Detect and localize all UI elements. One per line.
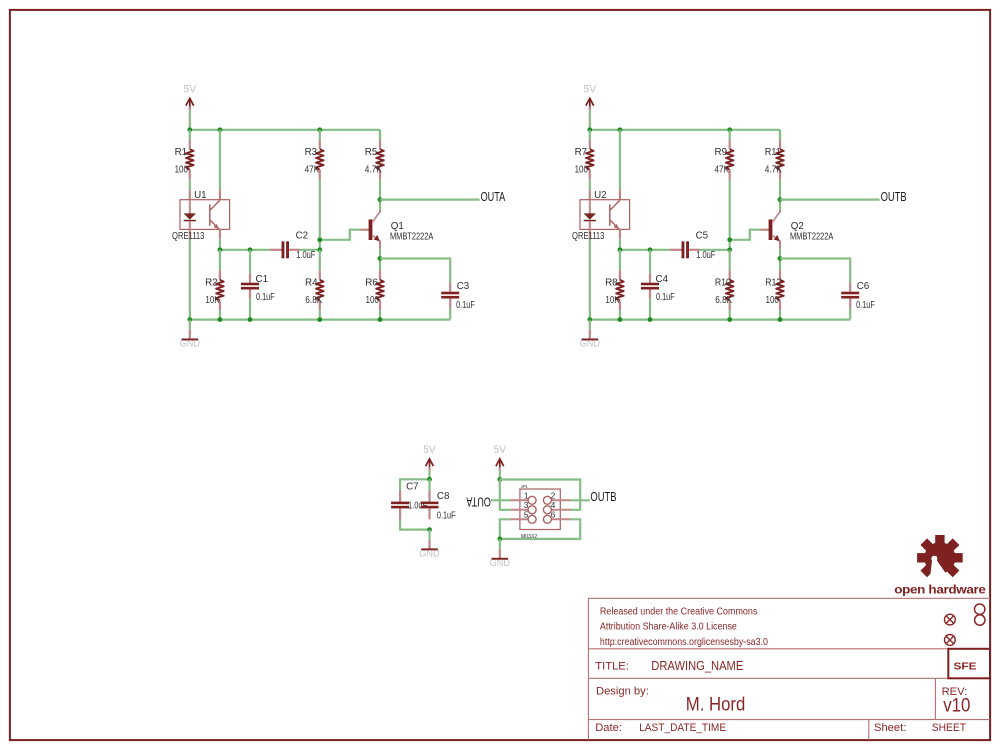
svg-text:R6: R6 (365, 277, 378, 288)
svg-text:6.8K: 6.8K (305, 295, 322, 306)
svg-text:100: 100 (366, 295, 380, 306)
junction header 5V (497, 477, 502, 482)
CC icon stacked circles (975, 604, 986, 625)
junction top rail at sensor column (618, 127, 623, 132)
junction emitter row at sensor column (218, 247, 223, 252)
svg-text:47K: 47K (715, 165, 730, 176)
transistor Q1 MMBT2222A (360, 210, 380, 249)
junction emitter row at C1 (648, 247, 653, 252)
svg-text:R10: R10 (715, 277, 731, 288)
junction bottom rail at R6 (778, 317, 783, 322)
svg-text:5V: 5V (423, 444, 436, 456)
wire into R9 (729, 130, 731, 140)
svg-text:v10: v10 (943, 695, 970, 717)
wire C7 top (400, 479, 429, 490)
junction top rail at sensor column (218, 127, 223, 132)
wire sensor emitter to C2 row (619, 239, 621, 250)
opto reflective sensor U2 QRE1113 (580, 190, 630, 239)
wire sensor emitter to C2 row (219, 239, 221, 250)
svg-text:C5: C5 (696, 230, 709, 241)
svg-text:0.1uF: 0.1uF (437, 511, 456, 522)
svg-text:Q2: Q2 (791, 221, 804, 232)
svg-text:C8: C8 (437, 491, 450, 502)
wire R2 to bottom rail (219, 310, 221, 320)
wire into R1 (189, 130, 191, 140)
svg-text:0.1uF: 0.1uF (856, 300, 875, 311)
wire R4 to bottom rail (319, 310, 321, 320)
wire C8 top stub (428, 479, 430, 490)
ground symbol (bypass caps) (419, 530, 440, 560)
svg-text:4: 4 (551, 501, 556, 510)
wire R1 to sensor LED anode (589, 179, 591, 190)
wire into R5 (379, 130, 381, 140)
svg-text:SFE: SFE (954, 661, 977, 672)
wire emitter row to C2 (220, 249, 270, 251)
svg-text:100: 100 (766, 295, 780, 306)
wire C7 bottom (400, 519, 429, 529)
svg-text:OUTA: OUTA (466, 495, 491, 510)
junction collector / output (378, 197, 383, 202)
wire into R4 (319, 250, 321, 271)
svg-text:Released under the Creative Co: Released under the Creative Commons (600, 607, 758, 618)
svg-text:Sheet:: Sheet: (874, 722, 906, 734)
wire top rail to sensor collector (619, 130, 621, 190)
wire 5V to pin 3 (500, 480, 511, 510)
svg-text:100: 100 (175, 165, 189, 176)
svg-text:2: 2 (551, 491, 556, 500)
junction bottom rail at C1 (648, 317, 653, 322)
svg-text:R2: R2 (205, 277, 218, 288)
wire R1 to sensor LED anode (189, 179, 191, 190)
wire into R2 (219, 250, 221, 271)
svg-text:5V: 5V (584, 84, 597, 96)
svg-text:4.7K: 4.7K (365, 165, 382, 176)
svg-text:Design by:: Design by: (596, 685, 649, 697)
junction bottom rail at R2 (218, 317, 223, 322)
junction bottom rail at R4 (317, 317, 322, 322)
svg-text:R9: R9 (715, 147, 728, 158)
junction base tap (727, 237, 732, 242)
svg-text:0.1uF: 0.1uF (656, 292, 675, 303)
junction C2 at R4 column (317, 247, 322, 252)
junction collector / output (778, 197, 783, 202)
wire R3 bottom to base tap (319, 179, 321, 249)
wire C2 to R3/R4 column (300, 249, 320, 251)
junction header GND (497, 537, 502, 542)
junction bottom rail at GND stub (187, 317, 192, 322)
wire OUTA to pin 1 (491, 499, 511, 501)
svg-text:U2: U2 (594, 190, 607, 201)
wire 5V top rail (590, 129, 780, 131)
svg-text:5V: 5V (494, 444, 507, 456)
junction bottom rail at R6 (378, 317, 383, 322)
svg-text:R1: R1 (175, 147, 188, 158)
transistor Q2 MMBT2222A (760, 210, 780, 249)
junction emitter row (778, 256, 783, 261)
svg-text:M. Hord: M. Hord (686, 694, 746, 716)
svg-text:C1: C1 (256, 274, 269, 285)
wire C2 to R3/R4 column (700, 249, 730, 251)
wire into R8 (619, 250, 621, 271)
svg-text:0.1uF: 0.1uF (256, 292, 275, 303)
svg-text:LAST_DATE_TIME: LAST_DATE_TIME (639, 722, 726, 734)
svg-text:MMBT2222A: MMBT2222A (790, 232, 834, 243)
wire top rail to R5 (379, 130, 381, 140)
svg-text:3: 3 (524, 501, 529, 510)
resistor R8 (616, 270, 624, 310)
wire emitter row to C3 (380, 259, 450, 283)
supply 5V symbol (header) (494, 444, 507, 480)
svg-text:OUTB: OUTB (881, 189, 907, 204)
ground symbol (180, 320, 201, 350)
Sheet cell (874, 722, 966, 734)
wire into R10 (729, 250, 731, 271)
junction C8 bottom (427, 527, 432, 532)
opto reflective sensor U1 QRE1113 (180, 190, 230, 239)
svg-text:5: 5 (524, 510, 529, 519)
TITLE row (595, 658, 743, 673)
junction top rail at R1 column (587, 127, 592, 132)
svg-text:6.8K: 6.8K (715, 295, 732, 306)
svg-text:M03X2: M03X2 (521, 534, 537, 540)
wire GND bottom rail (190, 319, 450, 321)
wire R5 to collector (379, 179, 381, 210)
svg-text:R12: R12 (765, 277, 781, 288)
svg-text:47K: 47K (305, 165, 320, 176)
resistor R5 (376, 140, 384, 180)
junction emitter row at sensor column (618, 247, 623, 252)
CC icon circle-x 2 (945, 635, 956, 646)
capacitor C2 (270, 241, 299, 258)
ground symbol (580, 320, 601, 350)
wire R12 to bottom rail (779, 310, 781, 320)
wire R8 to bottom rail (619, 310, 621, 320)
svg-text:C4: C4 (656, 274, 669, 285)
supply 5V symbol (OUTB circuit) (584, 84, 597, 130)
svg-text:DRAWING_NAME: DRAWING_NAME (651, 658, 743, 673)
resistor R10 (726, 270, 734, 310)
wire sensor LED cathode to bottom rail (589, 239, 591, 320)
svg-text:1.0uF: 1.0uF (696, 250, 715, 261)
wire 5V to pin 4 (500, 480, 580, 510)
svg-text:MMBT2222A: MMBT2222A (390, 232, 434, 243)
wire emitter row to C3 (780, 259, 850, 283)
junction top rail at R1 column (187, 127, 192, 132)
wire pin 6 to GND (500, 519, 580, 539)
capacitor C5 (670, 241, 699, 258)
capacitor C8 (421, 490, 439, 519)
wire into R3 (319, 130, 321, 140)
wire emitter to R6 (779, 249, 781, 270)
wire top rail to sensor collector (219, 130, 221, 190)
SFE box (948, 649, 990, 679)
Date row (595, 722, 726, 734)
svg-text:C3: C3 (457, 281, 470, 292)
svg-text:C6: C6 (857, 281, 870, 292)
svg-text:http:creativecommons.orglicens: http:creativecommons.orglicensesby-sa3.0 (600, 637, 769, 648)
svg-text:R4: R4 (305, 277, 318, 288)
resistor R11 (776, 140, 784, 180)
wire GND bottom rail (590, 319, 850, 321)
svg-text:6: 6 (551, 510, 556, 519)
junction bottom rail at R2 (618, 317, 623, 322)
junction C2 at R4 column (727, 247, 732, 252)
svg-text:C7: C7 (406, 481, 419, 492)
svg-text:R3: R3 (305, 147, 318, 158)
svg-text:0.1uF: 0.1uF (456, 300, 475, 311)
wire emitter to R6 (379, 249, 381, 270)
junction bottom rail at C1 (248, 317, 253, 322)
svg-text:SHEET: SHEET (932, 722, 966, 734)
svg-text:10K: 10K (205, 295, 220, 306)
resistor R6 (376, 270, 384, 310)
capacitor C4 (641, 273, 659, 319)
wire pin 2 to OUTB (570, 499, 590, 501)
wire into R11 (779, 130, 781, 140)
svg-text:R5: R5 (365, 147, 378, 158)
junction emitter row (378, 256, 383, 261)
ground symbol (header) (490, 539, 511, 569)
capacitor C7 (391, 490, 409, 519)
svg-text:Date:: Date: (595, 722, 622, 734)
junction bottom rail at R4 (727, 317, 732, 322)
resistor R9 (726, 140, 734, 180)
junction bottom rail at GND stub (587, 317, 592, 322)
resistor R1 (186, 140, 194, 180)
svg-text:OUTA: OUTA (481, 189, 506, 204)
junction base tap (317, 237, 322, 242)
svg-text:Attribution Share-Alike 3.0 Li: Attribution Share-Alike 3.0 License (600, 622, 737, 633)
svg-text:TITLE:: TITLE: (595, 661, 629, 673)
wire into C1 (249, 250, 251, 273)
svg-text:1: 1 (524, 491, 529, 500)
resistor R12 (776, 270, 784, 310)
wire top rail to R11 (779, 130, 781, 140)
REV cell (942, 686, 971, 717)
resistor R4 (316, 270, 324, 310)
svg-text:Q1: Q1 (391, 221, 404, 232)
wire base jog (730, 230, 760, 240)
capacitor C1 (241, 273, 259, 319)
svg-text:R8: R8 (605, 277, 618, 288)
connector JP1 M03X2 (510, 489, 570, 530)
wire R6 to bottom rail (379, 310, 381, 320)
wire output OUTA (380, 199, 480, 201)
wire emitter row to C2 (620, 249, 670, 251)
resistor R3 (316, 140, 324, 180)
CC icon circle-x 1 (945, 614, 956, 625)
svg-text:5V: 5V (184, 84, 197, 96)
junction emitter row at C1 (248, 247, 253, 252)
wire R3 bottom to base tap (729, 179, 731, 249)
wire sensor LED cathode to bottom rail (189, 239, 191, 320)
Design by row (596, 685, 745, 715)
svg-text:R11: R11 (765, 147, 781, 158)
svg-text:4.7K: 4.7K (765, 165, 782, 176)
wire R10 to bottom rail (729, 310, 731, 320)
license text (600, 607, 769, 649)
capacitor C6 (841, 282, 859, 319)
wire R5 to collector (779, 179, 781, 210)
svg-text:C2: C2 (296, 230, 309, 241)
wire output OUTB (780, 199, 880, 201)
junction top rail at R3 column (727, 127, 732, 132)
open hardware logo gear (917, 535, 963, 578)
svg-text:OUTB: OUTB (590, 489, 616, 504)
wire base jog (320, 230, 360, 240)
title block outline (588, 598, 990, 740)
resistor R2 (216, 270, 224, 310)
wire pin 5 to GND (500, 519, 511, 539)
svg-text:QRE1113: QRE1113 (172, 231, 205, 242)
junction C8 top (427, 477, 432, 482)
capacitor C3 (441, 282, 459, 319)
supply 5V symbol (OUTA circuit) (184, 84, 197, 130)
svg-text:QRE1113: QRE1113 (572, 231, 605, 242)
svg-text:JP1: JP1 (521, 484, 528, 489)
supply 5V symbol (bypass caps) (423, 444, 436, 479)
wire into C1 (649, 250, 651, 273)
junction top rail at R3 column (317, 127, 322, 132)
svg-text:1.0uF: 1.0uF (296, 250, 315, 261)
svg-text:R7: R7 (575, 147, 588, 158)
svg-text:open hardware: open hardware (894, 583, 986, 597)
wire into R7 (589, 130, 591, 140)
svg-text:100: 100 (575, 165, 589, 176)
svg-text:10K: 10K (605, 295, 620, 306)
svg-text:U1: U1 (194, 190, 207, 201)
wire 5V top rail (190, 129, 380, 131)
resistor R7 (586, 140, 594, 180)
